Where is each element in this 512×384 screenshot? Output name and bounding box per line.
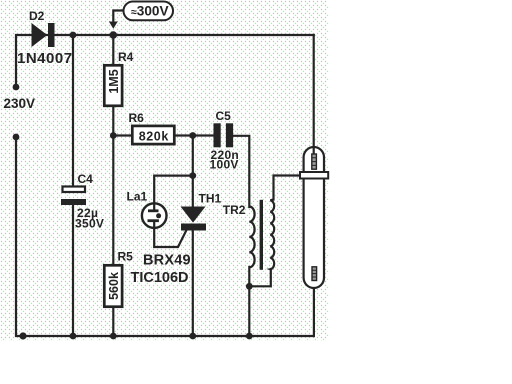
node junction bottom rail / R5	[110, 333, 117, 340]
neon lamp La1	[142, 203, 167, 228]
svg-text:C5: C5	[216, 109, 232, 123]
svg-text:D2: D2	[29, 9, 45, 23]
svg-text:100V: 100V	[210, 158, 239, 172]
wire thyristor anode branch	[192, 136, 194, 207]
node junction La1/TH1 gate row	[189, 172, 196, 179]
wire TR2 primary bottom	[248, 267, 250, 336]
net label ~300V callout	[109, 2, 173, 29]
capacitor C4 electrolytic	[61, 187, 86, 206]
svg-text:C4: C4	[78, 172, 94, 186]
wire C4 bottom to rail	[72, 205, 74, 336]
wire C5 to TR2 primary bend	[233, 136, 249, 207]
wire TR2 secondary top to tube collar	[274, 176, 301, 200]
svg-text:350V: 350V	[75, 217, 104, 231]
tube bottom electrode	[312, 267, 317, 281]
node junction top rail / C4	[70, 32, 77, 39]
wire La1 top branch	[154, 176, 193, 204]
node 230V upper terminal	[13, 84, 20, 91]
svg-text:R5: R5	[118, 250, 134, 264]
svg-text:≈300V: ≈300V	[131, 4, 169, 19]
svg-text:BRX49: BRX49	[143, 253, 191, 269]
wire R4 to R5 vertical	[112, 107, 114, 264]
wire top rail from left corner through D2 to lamp drop	[16, 35, 314, 87]
wire R6 row left	[113, 134, 131, 136]
wire TR2 secondary bottom return	[249, 269, 270, 286]
diode D2	[32, 23, 55, 47]
node junction R6/C5/TH1	[189, 132, 196, 139]
wire R6 to C5	[176, 134, 214, 136]
wire R4 branch top	[112, 35, 114, 64]
svg-text:La1: La1	[127, 190, 148, 204]
node junction top rail / R4	[110, 31, 118, 39]
fluorescent tube	[304, 147, 324, 288]
svg-text:230V: 230V	[4, 96, 36, 111]
resistor R4	[104, 65, 122, 106]
svg-text:1M5: 1M5	[107, 69, 121, 93]
wire drop to tube top electrode	[313, 35, 315, 154]
wire R5 bottom to rail	[112, 308, 114, 336]
svg-text:TR2: TR2	[223, 203, 246, 217]
wire C4 branch vertical	[72, 35, 74, 186]
node junction bottom rail / TR2	[246, 333, 253, 340]
node junction TR2 bottom	[246, 283, 253, 290]
transformer TR2 secondary winding	[270, 200, 274, 270]
transformer TR2 primary winding	[249, 207, 254, 268]
node junction R4/R6	[110, 132, 117, 139]
node junction bottom rail / TH1	[189, 333, 196, 340]
svg-text:TH1: TH1	[199, 192, 222, 206]
svg-text:TIC106D: TIC106D	[131, 270, 189, 286]
svg-text:R4: R4	[118, 50, 134, 64]
tube top electrode	[312, 154, 317, 169]
transformer TR2 core	[260, 200, 263, 270]
node 230V lower terminal	[13, 134, 20, 141]
node junction bottom rail left corner	[19, 332, 26, 339]
svg-text:560k: 560k	[107, 272, 121, 300]
wire La1 bottom to gate	[154, 228, 186, 247]
resistor R5	[104, 265, 122, 306]
thyristor TH1	[181, 207, 207, 231]
tube collar	[300, 172, 328, 179]
capacitor C5	[214, 123, 234, 147]
wire tube bottom to rail	[313, 288, 315, 336]
svg-text:820k: 820k	[139, 130, 169, 144]
node junction bottom rail / C4	[70, 333, 77, 340]
svg-text:R6: R6	[129, 111, 145, 125]
wire 230V lower lead down to bottom rail	[16, 137, 314, 336]
svg-text:1N4007: 1N4007	[17, 50, 73, 67]
resistor R6	[132, 126, 174, 144]
wire thyristor cathode to rail	[192, 231, 194, 337]
